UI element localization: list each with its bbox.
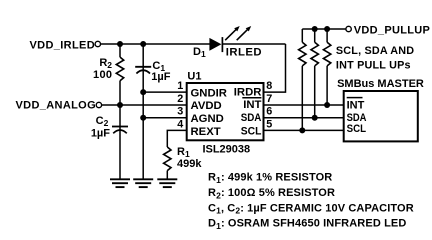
svg-text:REXT: REXT [191, 126, 221, 138]
junction dot pullup mid [312, 26, 318, 32]
wire D1 cathode down to pin 8 [263, 44, 286, 92]
resistor R1 [164, 147, 171, 179]
terminal VDD_IRLED [95, 41, 100, 46]
svg-text:VDD_PULLUP: VDD_PULLUP [354, 24, 430, 36]
ground under C1 [133, 179, 153, 187]
wire INT pin7 to SMBus [263, 104, 344, 106]
wire pin 4 to R1 [167, 130, 186, 147]
junction dot VDD_ANALOG / R2 / C2 [117, 102, 123, 108]
svg-text:SCL: SCL [241, 125, 262, 137]
wire C1 line to pin 1 [143, 91, 187, 93]
svg-text:100: 100 [93, 69, 112, 81]
capacitor C1 [135, 44, 151, 179]
svg-text:8: 8 [266, 80, 272, 92]
svg-text:INT: INT [347, 100, 365, 112]
LED arrow 1 [225, 26, 240, 40]
svg-text:R2: R2 [99, 57, 112, 70]
svg-text:INT: INT [243, 99, 261, 111]
svg-text:1µF: 1µF [91, 127, 110, 139]
svg-text:1: 1 [177, 80, 183, 92]
svg-text:ISL29038: ISL29038 [202, 143, 250, 155]
wire D1 cathode to corner [223, 43, 286, 45]
wire SCL pin5 to SMBus [263, 129, 344, 131]
pull-up resistor SDA [311, 29, 318, 118]
pull-up resistor SCL [299, 29, 306, 130]
wire pullup top rail [302, 28, 346, 30]
svg-text:AGND: AGND [191, 113, 224, 125]
diode D1 IRLED [209, 37, 222, 52]
wire SDA pin6 to SMBus [263, 117, 344, 119]
junction dot pullup right [324, 26, 330, 32]
junction dot R2 top [117, 41, 123, 47]
SMBus pin INT with overline [347, 98, 365, 112]
svg-text:1µF: 1µF [151, 71, 170, 83]
svg-text:AVDD: AVDD [191, 100, 222, 112]
wire VDD_IRLED to D1 anode [100, 43, 209, 45]
junction dot INT pullup [324, 102, 330, 108]
svg-text:R1: 499k 1% RESISTOR: R1: 499k 1% RESISTOR [208, 172, 332, 185]
SMBus MASTER box [344, 91, 418, 141]
svg-text:SCL, SDA AND: SCL, SDA AND [336, 45, 414, 57]
LED arrow 2 [237, 26, 252, 40]
svg-text:C1, C2: 1µF CERAMIC 10V CAPACI: C1, C2: 1µF CERAMIC 10V CAPACITOR [208, 202, 414, 215]
resistor R2 [116, 44, 123, 105]
ground under C2 [110, 179, 130, 187]
pull-up resistor INT [323, 29, 330, 105]
junction dot SDA pullup [312, 115, 318, 121]
pin label INT with overline [242, 98, 261, 112]
junction dot pin1 [140, 89, 146, 95]
IC U1 ISL29038 box [187, 83, 264, 140]
svg-text:SMBus MASTER: SMBus MASTER [337, 78, 424, 90]
capacitor C2 [112, 105, 128, 179]
junction dot SCL pullup [299, 127, 305, 133]
svg-text:IRLED: IRLED [226, 47, 262, 59]
wire C1 line to pin 3 [143, 117, 187, 119]
terminal VDD_ANALOG [96, 102, 101, 107]
junction dot C1 top [140, 41, 146, 47]
svg-text:499k: 499k [177, 158, 202, 170]
svg-text:U1: U1 [187, 70, 201, 82]
svg-text:C2: C2 [96, 115, 109, 128]
svg-text:VDD_ANALOG: VDD_ANALOG [15, 99, 96, 111]
terminal VDD_PULLUP [346, 26, 351, 31]
svg-text:2: 2 [177, 93, 183, 105]
svg-text:VDD_IRLED: VDD_IRLED [30, 39, 96, 51]
svg-text:D1: D1 [193, 46, 206, 59]
svg-text:SCL: SCL [347, 123, 367, 135]
svg-text:GNDIR: GNDIR [191, 87, 227, 99]
svg-text:6: 6 [266, 106, 272, 118]
junction dot pin3 [140, 115, 146, 121]
svg-text:4: 4 [177, 119, 183, 131]
svg-text:D1: OSRAM SFH4650 INFRARED LED: D1: OSRAM SFH4650 INFRARED LED [208, 218, 406, 231]
svg-text:7: 7 [266, 93, 272, 105]
svg-text:3: 3 [177, 106, 183, 118]
svg-text:R2: 100Ω 5% RESISTOR: R2: 100Ω 5% RESISTOR [208, 187, 335, 200]
svg-text:5: 5 [266, 119, 272, 131]
svg-text:IRDR: IRDR [234, 86, 262, 98]
svg-text:SDA: SDA [241, 112, 262, 124]
ground under R1 [157, 179, 177, 187]
wire VDD_ANALOG to pin 2 [101, 104, 186, 106]
svg-text:SDA: SDA [347, 112, 367, 124]
svg-text:INT PULL UPs: INT PULL UPs [336, 59, 411, 71]
